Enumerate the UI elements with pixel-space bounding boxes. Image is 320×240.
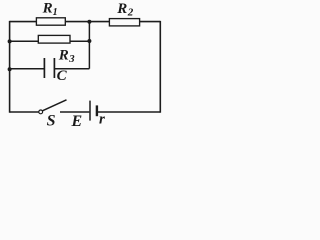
wire top from left corner through R1, R2 to right corner [10,21,161,23]
wire capacitor branch left [10,68,45,70]
svg-text:E: E [71,113,83,130]
node C junction dot left wire2 [8,39,12,43]
node D junction dot left capacitor branch [8,67,12,71]
capacitor C plates [44,58,54,78]
svg-text:C: C [57,68,68,84]
wire bottom switch to battery [60,111,89,113]
wire bottom left to switch [10,111,39,113]
switch S symbol [39,100,67,114]
battery E short plate [96,105,98,116]
wire bottom battery to right corner [98,111,160,113]
resistor R1 [36,18,65,25]
wire middle vertical junction drop [88,22,90,69]
svg-text:S: S [47,112,56,129]
resistor R3 [38,35,70,43]
svg-text:R2: R2 [116,1,133,18]
wire right vertical [159,21,161,113]
resistor R2 [109,19,139,26]
svg-text:R3: R3 [58,48,75,65]
node A junction dot top (x=89) [87,20,91,24]
svg-text:r: r [99,111,105,127]
wire left vertical [9,21,11,113]
node B junction dot middle (x=89) [87,39,91,43]
wire middle horizontal (R3 branch) [10,40,90,42]
wire capacitor branch right [54,68,89,70]
battery E long plate [89,101,91,121]
svg-text:R1: R1 [42,1,58,18]
